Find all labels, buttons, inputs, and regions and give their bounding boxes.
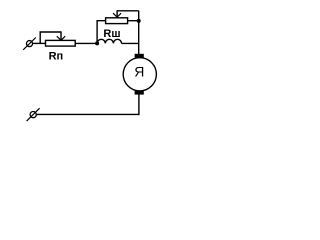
rheostat Rp body xyxy=(46,40,76,46)
wire: rheostat Rsh to node B xyxy=(128,20,139,22)
terminal X1 (top left) xyxy=(23,38,36,50)
wire: terminal X1 to rheostat Rp xyxy=(33,42,46,44)
rheostat Rsh tap arrow xyxy=(113,11,139,17)
rheostat Rp tap arrow xyxy=(40,32,65,43)
svg-text:Rп: Rп xyxy=(49,50,64,62)
wire: bottom brush to bottom rail xyxy=(37,95,139,115)
terminal X2 (bottom left) xyxy=(27,108,40,121)
wire: node B down to motor top brush xyxy=(138,11,140,55)
motor bottom brush xyxy=(135,91,144,95)
motor top brush xyxy=(135,54,144,58)
svg-text:Rш: Rш xyxy=(103,28,120,40)
wire: node A up to rheostat Rsh xyxy=(97,21,106,45)
wire: rheostat Rp to node A xyxy=(75,42,97,44)
armature circle xyxy=(123,58,156,91)
inductor: shunt field winding xyxy=(97,39,121,43)
svg-text:Я: Я xyxy=(134,64,144,80)
node A junction dot xyxy=(95,41,99,45)
rheostat Rsh body xyxy=(106,18,128,24)
wire: inductor to node B xyxy=(122,42,139,44)
node B junction dot xyxy=(137,19,141,23)
